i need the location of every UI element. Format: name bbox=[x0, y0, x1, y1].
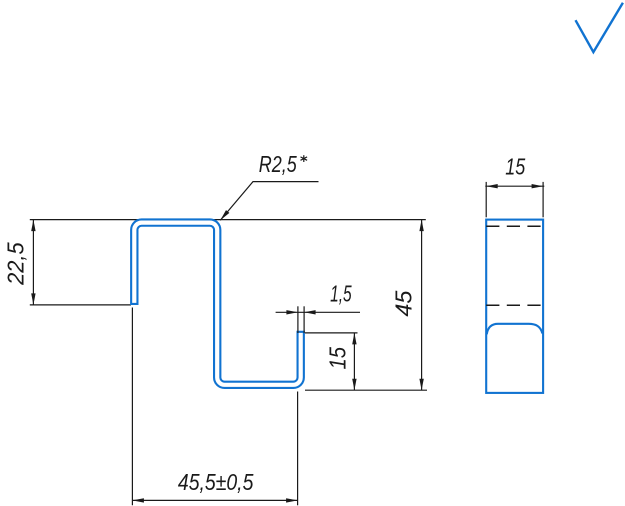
arrow 45 bottom bbox=[419, 379, 423, 391]
extension line left for 15 side view bbox=[485, 182, 487, 217]
svg-text:45,5±0,5: 45,5±0,5 bbox=[178, 469, 254, 495]
arrow 22,5 bottom bbox=[31, 293, 35, 305]
arrow 15 right top bbox=[352, 333, 356, 345]
arrow 45 top bbox=[419, 220, 423, 232]
svg-text:15: 15 bbox=[505, 154, 526, 180]
surface roughness check symbol bbox=[576, 3, 623, 52]
extension line right for 45,5 bbox=[297, 392, 299, 506]
extension line bottom (shared by 15 and 45 dims) bbox=[305, 389, 427, 391]
arrow 15 side right bbox=[532, 184, 544, 188]
side view bend dashed line upper bbox=[486, 225, 541, 227]
side view rectangle bbox=[486, 220, 543, 393]
arrow 45,5 right bbox=[286, 498, 298, 502]
extension line right for 15 side view bbox=[542, 182, 544, 217]
dimension line 15 side view bbox=[485, 185, 544, 187]
dimension line 1,5 bbox=[276, 311, 360, 313]
arrow 22,5 top bbox=[31, 220, 35, 232]
leader line R2,5 bbox=[220, 182, 318, 221]
svg-text:R2,5: R2,5 bbox=[259, 151, 298, 177]
svg-text:22,5: 22,5 bbox=[2, 241, 28, 285]
asterisk mark bbox=[301, 155, 308, 162]
arrow 45,5 left bbox=[132, 498, 144, 502]
arrow 1,5 right bbox=[304, 310, 316, 314]
svg-text:15: 15 bbox=[325, 346, 351, 369]
sheet profile front view inner white gap bbox=[134, 223, 300, 385]
dimension line 45 bbox=[421, 220, 423, 391]
extension line left for 45,5 bbox=[131, 308, 133, 506]
extension lines 1,5 over flange bbox=[298, 306, 304, 333]
arrow leader R2,5 bbox=[220, 210, 229, 220]
side view bend tangent curve bbox=[487, 324, 543, 335]
sheet profile front view outer stroke bbox=[134, 223, 300, 385]
arrow 15 side left bbox=[486, 184, 498, 188]
extension line top for 15 right bbox=[305, 332, 358, 334]
extension line top (shared by 22,5 and 45 dims) bbox=[30, 219, 426, 221]
arrow 1,5 left bbox=[286, 310, 298, 314]
dimension line 45,5 bbox=[132, 499, 297, 501]
side view bend dashed line lower bbox=[486, 304, 541, 306]
svg-text:45: 45 bbox=[390, 290, 416, 317]
extension line bottom-left flange end bbox=[30, 304, 131, 306]
dimension line 22,5 bbox=[32, 220, 34, 305]
svg-text:1,5: 1,5 bbox=[330, 281, 352, 307]
dimension line 15 right bbox=[353, 333, 355, 390]
arrow 15 right bottom bbox=[352, 379, 356, 391]
